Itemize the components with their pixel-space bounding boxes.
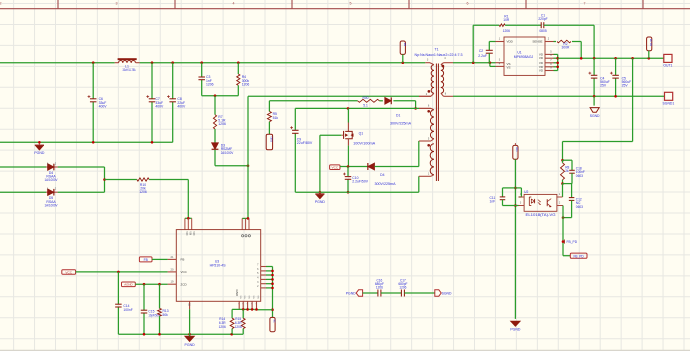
svg-text:OUT1: OUT1 <box>663 64 672 68</box>
svg-text:50k: 50k <box>163 313 169 317</box>
svg-text:FB: FB <box>144 258 148 262</box>
svg-text:3: 3 <box>116 1 118 5</box>
svg-text:0805: 0805 <box>539 29 547 33</box>
svg-text:SGND: SGND <box>590 114 600 118</box>
svg-text:0603: 0603 <box>576 205 583 209</box>
svg-text:0805: 0805 <box>270 137 273 143</box>
svg-text:7: 7 <box>584 1 586 5</box>
svg-text:SW: SW <box>248 296 250 299</box>
svg-text:VDD: VDD <box>507 40 514 44</box>
svg-text:Np:Ns:Naux1:Naux2=22:4:7:3: Np:Ns:Naux1:Naux2=22:4:7:3 <box>415 53 463 57</box>
svg-text:ZCD: ZCD <box>181 283 188 287</box>
svg-text:R11: R11 <box>515 147 518 152</box>
svg-text:T1: T1 <box>434 47 438 51</box>
svg-text:51k: 51k <box>273 116 279 120</box>
svg-text:19: 19 <box>171 280 174 284</box>
svg-text:SGND: SGND <box>442 291 452 295</box>
svg-text:300R: 300R <box>562 46 571 50</box>
svg-text:1206: 1206 <box>242 82 250 86</box>
svg-text:20: 20 <box>171 267 174 271</box>
svg-text:PGND: PGND <box>315 200 326 204</box>
svg-text:33uH/11.78A: 33uH/11.78A <box>123 68 137 72</box>
svg-text:1206: 1206 <box>139 190 147 194</box>
svg-text:1nF: 1nF <box>490 200 496 204</box>
svg-text:U2: U2 <box>524 190 528 194</box>
svg-text:2A/1000V: 2A/1000V <box>221 151 234 155</box>
svg-text:AGND: AGND <box>124 283 132 287</box>
svg-text:C2: C2 <box>479 49 483 53</box>
svg-text:1206: 1206 <box>219 325 226 329</box>
svg-text:FB_PD: FB_PD <box>573 254 584 258</box>
svg-text:MP6908AGJ: MP6908AGJ <box>514 55 534 59</box>
svg-text:SGND1: SGND1 <box>663 101 675 105</box>
svg-text:1206: 1206 <box>376 286 383 290</box>
svg-text:VCC: VCC <box>65 270 72 274</box>
svg-text:4: 4 <box>233 1 235 5</box>
svg-text:1206: 1206 <box>503 29 511 33</box>
svg-text:HF510-4S: HF510-4S <box>210 264 227 268</box>
svg-text:2.2uF/50V: 2.2uF/50V <box>352 180 368 184</box>
svg-text:400V: 400V <box>155 104 164 108</box>
svg-text:1206: 1206 <box>206 82 214 86</box>
svg-text:VIN: VIN <box>185 231 187 235</box>
svg-text:2: 2 <box>0 1 2 5</box>
svg-text:PGND: PGND <box>185 343 196 347</box>
svg-text:VIN: VIN <box>188 231 190 235</box>
svg-text:100V/100mA: 100V/100mA <box>353 141 376 145</box>
svg-text:Q1: Q1 <box>359 131 364 135</box>
svg-text:GND: GND <box>235 290 239 298</box>
svg-text:FB_PD: FB_PD <box>567 240 578 244</box>
svg-text:21: 21 <box>171 255 174 259</box>
svg-text:VS: VS <box>507 66 511 70</box>
svg-text:SW: SW <box>257 296 259 299</box>
svg-text:SW: SW <box>252 296 254 299</box>
svg-text:400V: 400V <box>99 104 108 108</box>
svg-text:25V: 25V <box>622 84 629 88</box>
svg-text:R00: R00 <box>362 96 368 100</box>
svg-text:10R: 10R <box>503 18 510 22</box>
svg-text:1206: 1206 <box>235 325 242 329</box>
svg-text:SENSE: SENSE <box>532 40 542 44</box>
svg-text:SW: SW <box>243 296 245 299</box>
svg-text:U1: U1 <box>517 50 521 54</box>
svg-text:300V/225mA: 300V/225mA <box>390 121 412 125</box>
svg-text:VIN: VIN <box>192 231 194 235</box>
svg-text:6: 6 <box>467 1 469 5</box>
svg-text:2.2uF: 2.2uF <box>478 54 487 58</box>
svg-text:FB: FB <box>181 258 185 262</box>
svg-text:VCC: VCC <box>181 270 188 274</box>
svg-text:VCC: VCC <box>332 165 339 169</box>
svg-text:400V: 400V <box>177 104 186 108</box>
svg-text:PGND: PGND <box>510 328 521 332</box>
svg-text:1206: 1206 <box>399 286 406 290</box>
svg-text:R0 0R: R0 0R <box>649 39 652 46</box>
svg-text:SW: SW <box>239 296 241 299</box>
svg-text:1A/1000V: 1A/1000V <box>45 178 59 182</box>
svg-text:EL1018(TA)-VG: EL1018(TA)-VG <box>526 213 557 217</box>
svg-text:2k: 2k <box>565 169 569 173</box>
svg-text:5.1: 5.1 <box>363 104 368 108</box>
svg-text:22uF/80V: 22uF/80V <box>297 141 313 145</box>
svg-text:300V/225mA: 300V/225mA <box>375 182 397 186</box>
svg-text:25V: 25V <box>600 84 607 88</box>
svg-text:NC: NC <box>272 319 275 323</box>
svg-text:1206: 1206 <box>218 122 226 126</box>
svg-text:0603: 0603 <box>576 174 583 178</box>
svg-text:D4: D4 <box>380 173 384 177</box>
svg-text:PGND: PGND <box>346 291 356 295</box>
svg-text:PGND: PGND <box>34 151 45 155</box>
svg-text:5: 5 <box>350 1 352 5</box>
svg-text:1A/1000V: 1A/1000V <box>45 203 59 207</box>
svg-text:100nF: 100nF <box>123 308 132 312</box>
svg-text:220pF: 220pF <box>538 17 547 21</box>
svg-text:D1: D1 <box>396 113 400 117</box>
